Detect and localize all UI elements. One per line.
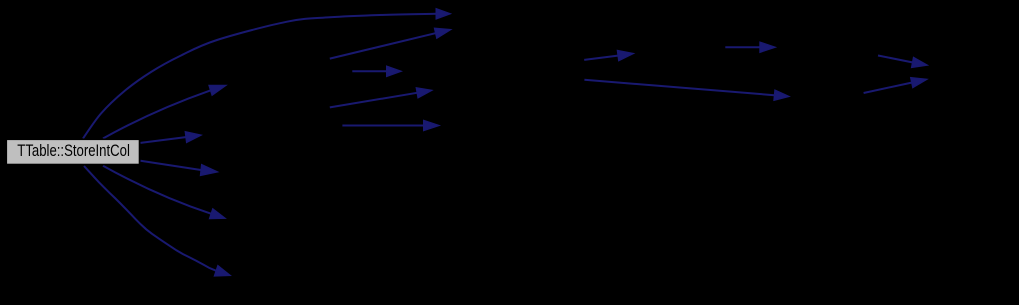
edge R2	[725, 46, 760, 48]
arrowhead R2	[760, 42, 776, 53]
edge E1	[83, 14, 436, 139]
arrowhead E6	[214, 265, 230, 276]
arrowhead R3	[774, 90, 790, 101]
arrowhead M4	[424, 120, 440, 131]
edge M3	[330, 93, 417, 108]
svg-text:TTable::StoreIntCol: TTable::StoreIntCol	[17, 142, 130, 160]
node TTable::StoreIntCol	[6, 139, 139, 164]
edge M2	[352, 70, 386, 72]
edge R5	[864, 83, 912, 93]
arrowhead E4	[200, 164, 218, 175]
arrowhead E2	[209, 85, 227, 95]
edge R4	[878, 56, 912, 63]
edge M4	[342, 125, 423, 127]
arrowhead R5	[911, 77, 928, 87]
arrowhead R4	[911, 57, 927, 67]
arrowhead E1	[436, 9, 451, 20]
arrowhead E3	[185, 132, 201, 143]
edge M1	[330, 33, 436, 58]
edge E4	[141, 161, 201, 170]
arrowhead M3	[416, 88, 432, 98]
edge E2	[103, 90, 210, 138]
edge E5	[103, 166, 211, 214]
arrowhead E5	[209, 209, 225, 219]
arrowhead M2	[387, 66, 402, 77]
edge E6	[84, 166, 216, 271]
arrowhead M1	[434, 28, 451, 38]
edge R3	[584, 80, 774, 95]
edge R1	[584, 56, 618, 60]
edge E3	[141, 137, 186, 143]
arrowhead R1	[617, 50, 634, 61]
